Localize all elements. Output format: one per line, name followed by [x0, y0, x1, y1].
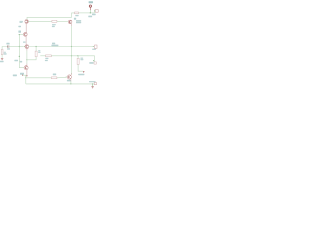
- wire: [1, 55, 3, 59]
- C1 labels: [6, 43, 9, 45]
- wire: [19, 35, 24, 68]
- wire: [27, 57, 36, 60]
- ground: [91, 86, 93, 88]
- wire: [35, 47, 37, 52]
- junction: [93, 46, 94, 47]
- resistor R3: [52, 20, 57, 22]
- C4 label: [89, 62, 93, 64]
- resistor R7: [77, 58, 79, 64]
- junction: [92, 83, 93, 84]
- wire: [40, 55, 45, 57]
- capacitor C1: [7, 45, 9, 47]
- junction: [70, 83, 71, 84]
- wire: [78, 64, 83, 71]
- wire: [27, 17, 72, 19]
- wire: [2, 47, 8, 50]
- connector J3: [94, 83, 96, 85]
- resistor R8: [51, 77, 57, 79]
- wire: [57, 76, 66, 78]
- R1 labels: [4, 52, 6, 53]
- resistor R4: [35, 51, 37, 57]
- J3 label: [89, 81, 96, 82]
- J1 label: [92, 49, 96, 50]
- wire: [26, 83, 94, 85]
- junction: [25, 77, 26, 78]
- junction: [66, 77, 67, 78]
- wire: [72, 13, 75, 18]
- J2 label: [92, 14, 96, 16]
- connector J1: [95, 45, 98, 48]
- R4 labels: [38, 50, 40, 51]
- Q2 labels: [18, 26, 21, 28]
- junction: [93, 60, 94, 61]
- Q4 label: [23, 42, 26, 43]
- wire: [29, 46, 93, 48]
- ground: [1, 57, 3, 59]
- power VCC: [89, 5, 91, 7]
- wire: [92, 84, 94, 87]
- R7 labels: [80, 58, 83, 59]
- resistor R5: [75, 12, 79, 14]
- capacitor C4: [94, 62, 96, 64]
- labels: [52, 43, 55, 45]
- wire: [19, 34, 23, 36]
- wire: [9, 46, 23, 48]
- Q1 label: [19, 21, 23, 22]
- R5 label: [75, 15, 78, 16]
- wire: [26, 70, 28, 75]
- transistor Q4: [25, 45, 29, 49]
- transistor Q5: [24, 66, 28, 70]
- wire: [28, 20, 52, 22]
- wire: [57, 20, 68, 22]
- junction: [77, 55, 78, 56]
- VCC label: [89, 1, 93, 3]
- wire: [71, 24, 73, 26]
- diode D1: [83, 71, 85, 73]
- Q6 label: [67, 80, 71, 82]
- D1 label: [78, 74, 84, 76]
- emitter arrow Q5: [26, 75, 28, 77]
- wire: [94, 56, 96, 62]
- wire: [79, 12, 95, 14]
- wire: [25, 36, 27, 44]
- resistor R6: [46, 55, 52, 57]
- junction: [26, 59, 27, 60]
- wire: [70, 79, 72, 81]
- labels: [14, 60, 18, 62]
- resistor R1: [1, 49, 3, 54]
- transistor Q3: [68, 20, 72, 24]
- node labels: [52, 24, 56, 25]
- junction: [24, 46, 25, 47]
- GND label: [0, 61, 4, 63]
- junction: [19, 34, 20, 35]
- junction: [19, 46, 20, 47]
- transistor Q6: [67, 75, 71, 79]
- wire: [51, 55, 94, 57]
- transistor Q1: [25, 20, 28, 23]
- Q3 labels: [74, 18, 76, 20]
- wire: [26, 77, 52, 79]
- power -VEE: [23, 74, 27, 76]
- junction: [71, 46, 72, 47]
- R8 label: [53, 74, 56, 76]
- junction: [71, 55, 72, 56]
- junction: [19, 56, 20, 57]
- Q5 label: [20, 73, 24, 75]
- -VEE label: [13, 75, 17, 77]
- connector J2: [95, 10, 98, 13]
- junction: [36, 46, 37, 47]
- transistor Q2: [23, 33, 27, 37]
- junction: [90, 12, 91, 13]
- R6 labels: [45, 58, 48, 59]
- wire: [77, 56, 79, 59]
- wire: [25, 75, 27, 84]
- wire: [26, 49, 28, 51]
- wire: [25, 23, 27, 32]
